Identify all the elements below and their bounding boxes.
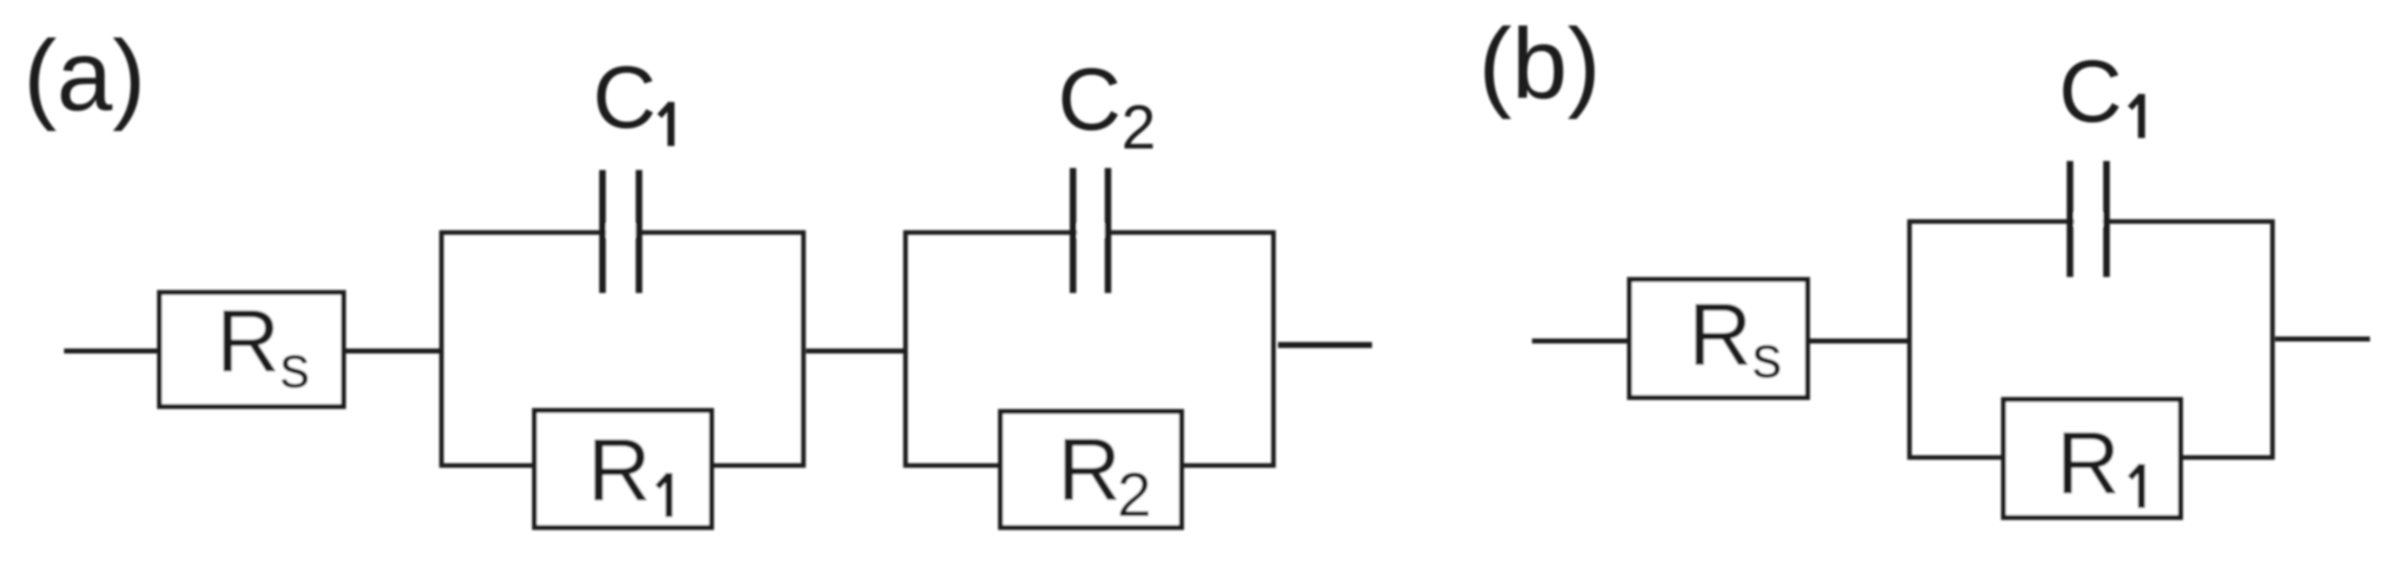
capacitor C1 (a) (603, 170, 640, 293)
svg-text:R: R (587, 420, 651, 519)
resistor R2 (a) (1001, 412, 1182, 531)
resistor Rs (a) (160, 291, 344, 407)
resistor R1 (a) (535, 411, 712, 528)
wire: (a) output lead (1278, 342, 1372, 348)
resistor R1 (b) (2004, 400, 2181, 518)
node: second parallel RC loop (a) (906, 233, 1274, 466)
wire: link between RC stages (a) (806, 349, 905, 354)
label C1 (a) (593, 48, 671, 147)
svg-text:R: R (2056, 413, 2120, 512)
wire: (b) output lead (2275, 337, 2370, 342)
svg-text:C: C (593, 48, 657, 147)
wire: Rs to RC network (b) (1810, 339, 1909, 344)
label C1 (b) (2059, 42, 2142, 141)
node: first parallel RC loop (a) (442, 233, 804, 466)
svg-text:(b): (b) (1479, 8, 1601, 120)
wire: (a) left lead (64, 349, 160, 354)
resistor Rs (b) (1630, 280, 1808, 398)
svg-text:C: C (2059, 42, 2123, 141)
wire: (b) left lead (1532, 339, 1630, 344)
node: parallel RC loop (b) (1910, 222, 2273, 458)
wire: Rs to first RC network (a) (346, 349, 441, 354)
capacitor C2 (a) (1073, 168, 1108, 293)
svg-text:(a): (a) (24, 20, 146, 132)
capacitor C1 (b) (2070, 161, 2107, 277)
